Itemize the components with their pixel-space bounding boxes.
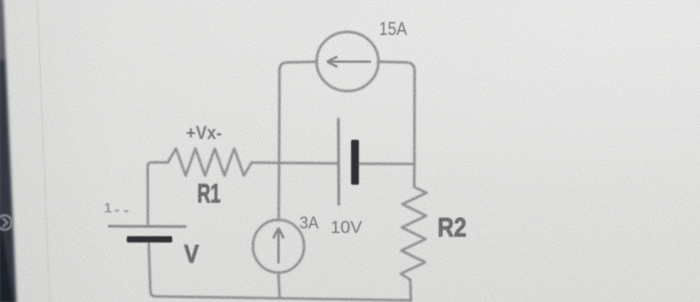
wire: bottom horizontal	[156, 296, 411, 300]
battery V thick plate	[127, 236, 172, 242]
value label 3A	[300, 214, 319, 233]
label V	[184, 240, 199, 269]
current source 15A arrow	[327, 57, 371, 67]
battery V thin plate	[108, 225, 186, 228]
sidebar chevron button on bezel	[0, 215, 12, 229]
wire: left branch below battery V down to bottom corner	[149, 242, 156, 296]
node label +Vx-	[186, 122, 222, 143]
wire: 10V battery to right vertical	[360, 162, 415, 165]
battery 10V thick plate	[351, 140, 358, 185]
wire: below 3A circle to bottom wire	[278, 272, 279, 297]
value label 15A	[379, 18, 407, 40]
wire: resistor R1 to 10V battery	[252, 161, 338, 164]
wire: top loop right segment + corner down	[378, 62, 415, 165]
voltage source V plates	[108, 226, 186, 242]
resistor R1 zigzag	[168, 149, 252, 176]
current source 15A circle	[317, 32, 379, 91]
wire: middle left vertical down from resistor row	[148, 162, 168, 224]
label R2	[438, 213, 467, 243]
dark screen bezel strip (photo edge)	[0, 0, 17, 302]
current source 3A arrow	[273, 228, 283, 264]
voltage source 10V plates	[338, 118, 358, 206]
value label 10V	[331, 217, 363, 237]
problem number 1...	[104, 200, 129, 216]
battery V thick plate (dark core)	[127, 236, 172, 242]
label R1	[197, 178, 220, 208]
wire: 3A branch vertical (middle row down to circle)	[277, 163, 280, 220]
current source 3A circle	[253, 220, 304, 273]
battery 10V thin plate	[337, 118, 340, 206]
resistor R2 zigzag	[401, 164, 427, 300]
wire: top loop left vertical + corner	[279, 62, 317, 163]
battery 10V thick plate (dark core)	[351, 140, 358, 185]
faint page edge line	[37, 0, 50, 302]
